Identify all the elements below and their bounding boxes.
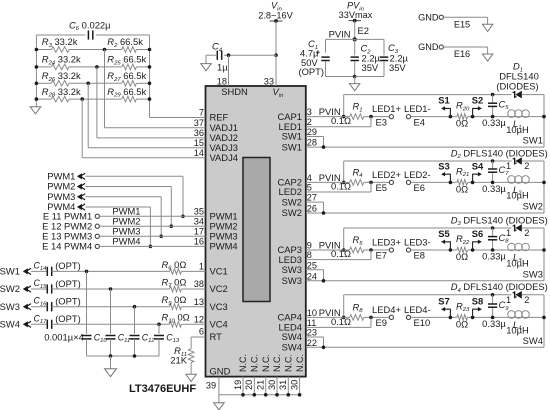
node NC 19 — [241, 393, 245, 397]
wire NC pin 19 — [242, 377, 244, 395]
wire divider row 4 — [36, 98, 51, 100]
wire SW2 to C115 — [31, 288, 47, 290]
svg-text:31: 31 — [278, 380, 288, 390]
svg-text:17: 17 — [194, 227, 204, 237]
diode D3 — [513, 226, 517, 230]
capacitor C2 — [351, 56, 359, 58]
svg-text:3: 3 — [307, 107, 312, 117]
node ch2 right — [542, 181, 546, 185]
node PVin dot — [353, 19, 357, 23]
wire cap C13 vert — [158, 324, 160, 334]
svg-text:SW1: SW1 — [282, 141, 302, 152]
node ch2 led+ — [369, 181, 373, 185]
wire Vin to pin33 — [275, 55, 277, 86]
svg-text:0.1Ω: 0.1Ω — [331, 180, 351, 191]
wire to C3 top — [355, 38, 384, 40]
PVin supply bar — [349, 20, 362, 22]
node pin18 tap dot — [227, 53, 231, 57]
node ch1 pvin — [342, 115, 346, 119]
svg-text:VC1: VC1 — [210, 266, 228, 277]
svg-text:2: 2 — [524, 228, 529, 238]
node left rail row2 — [35, 65, 39, 69]
resistor R28 33.2k — [51, 96, 69, 102]
svg-text:S1: S1 — [438, 95, 449, 106]
node ch1 s1 — [449, 115, 453, 119]
wire NC pin 20 — [253, 377, 255, 395]
wire cap bus — [87, 355, 160, 357]
wire C4 to gnd — [206, 54, 217, 56]
arrow S7 — [444, 309, 451, 317]
wire C1 left — [325, 39, 327, 52]
capacitor C16 — [46, 302, 48, 311]
node ch4 led+ — [369, 316, 373, 320]
svg-text:SW2: SW2 — [0, 283, 20, 294]
node PWM1 junction — [181, 215, 185, 219]
wire C4 to Vin — [224, 54, 276, 56]
wire R6 to IC — [181, 270, 205, 272]
svg-text:GND: GND — [418, 13, 439, 23]
wire ch3 right edge — [543, 228, 545, 281]
svg-text:0.1Ω: 0.1Ω — [331, 115, 351, 126]
resistor R10 0ohm — [170, 322, 182, 328]
svg-text:D3 DFLS140 (DIODES): D3 DFLS140 (DIODES) — [451, 214, 548, 227]
inductor L2 10uH — [508, 176, 516, 184]
svg-text:11: 11 — [307, 318, 317, 328]
svg-text:10µH: 10µH — [506, 124, 529, 135]
wire E15 — [443, 16, 487, 18]
node mid row1 — [103, 48, 107, 52]
svg-text:1: 1 — [199, 262, 204, 272]
svg-text:0.1Ω: 0.1Ω — [331, 316, 351, 327]
svg-text:R26 33.2k: R26 33.2k — [42, 70, 81, 83]
wire PWM2 — [86, 186, 172, 188]
wire cap C12 vert — [134, 307, 136, 334]
resistor R3 33.2k — [51, 47, 69, 53]
svg-text:35V: 35V — [362, 62, 379, 73]
wire divider row 2 — [36, 66, 51, 68]
wire PVIN top — [326, 38, 355, 40]
wire NC pin 31 — [287, 377, 289, 395]
node Vin-C4 junction — [274, 53, 278, 57]
svg-text:SW4: SW4 — [523, 335, 543, 346]
arrow S1 — [444, 108, 451, 116]
svg-text:25: 25 — [307, 260, 317, 270]
svg-text:28: 28 — [307, 138, 317, 148]
svg-text:E7: E7 — [376, 250, 387, 261]
svg-text:SW1: SW1 — [523, 135, 543, 146]
capacitor C14 — [46, 267, 48, 276]
arrow S8 — [473, 309, 480, 317]
svg-text:21: 21 — [256, 380, 266, 390]
ground cap bank — [105, 369, 117, 377]
svg-text:2: 2 — [524, 295, 529, 305]
wire R11 gnd — [190, 363, 192, 375]
svg-text:(OPT): (OPT) — [55, 296, 81, 307]
wire cap C11 vert — [110, 289, 112, 334]
arrow S5 — [444, 242, 451, 250]
svg-text:LED2-: LED2- — [404, 169, 431, 180]
arrow SW4 — [23, 321, 28, 327]
arrow SW1 — [23, 268, 28, 274]
svg-text:R3 33.2k: R3 33.2k — [42, 36, 78, 49]
svg-text:R2 66.5k: R2 66.5k — [107, 36, 143, 49]
svg-text:10µH: 10µH — [506, 257, 529, 268]
wire ch1 r0 out — [468, 116, 545, 118]
svg-text:LED4+: LED4+ — [372, 304, 401, 315]
node cap tap 1 — [85, 270, 89, 274]
svg-text:33Vmax: 33Vmax — [339, 10, 373, 20]
svg-text:GND: GND — [418, 42, 439, 52]
capacitor C12 plates — [130, 335, 140, 337]
resistor R6 0ohm — [170, 269, 182, 275]
svg-text:E10: E10 — [414, 317, 431, 328]
resistor R9 0ohm — [170, 304, 182, 310]
wire ch2 right edge — [543, 161, 545, 213]
wire VADJ1 — [104, 50, 106, 128]
node ch2 cap top — [491, 159, 495, 163]
resistor R7 0ohm — [170, 286, 182, 292]
wire C17 to R10 — [52, 323, 170, 325]
wire SW3 stub a — [306, 269, 324, 271]
svg-text:N.C.: N.C. — [272, 354, 282, 372]
svg-text:N.C.: N.C. — [261, 354, 271, 372]
svg-text:4: 4 — [307, 173, 312, 183]
wire ch3 A2 — [364, 249, 390, 251]
svg-text:0Ω: 0Ω — [456, 183, 468, 194]
svg-text:PWM4: PWM4 — [112, 236, 140, 247]
node right rail row2 — [148, 65, 152, 69]
node ch4 pvin — [342, 316, 346, 320]
node mid row2 — [95, 65, 99, 69]
svg-text:S8: S8 — [472, 295, 483, 306]
svg-text:E16: E16 — [454, 49, 470, 59]
wire SW4 to C117 — [31, 323, 47, 325]
node ch3 right — [542, 248, 546, 252]
resistor R29 66.5k — [122, 96, 137, 102]
svg-text:SW4: SW4 — [282, 342, 302, 353]
svg-text:5: 5 — [307, 183, 312, 193]
svg-text:S2: S2 — [472, 95, 483, 106]
svg-text:LED1+: LED1+ — [372, 103, 401, 114]
svg-text:24: 24 — [307, 271, 317, 281]
wire ch3 top — [344, 227, 512, 229]
diode D4 — [513, 293, 517, 297]
node ch1 cap top — [491, 93, 495, 97]
svg-text:R6 0Ω: R6 0Ω — [162, 259, 187, 272]
svg-text:20: 20 — [244, 380, 254, 390]
node ch3 cap bot — [491, 248, 495, 252]
wire C7 riser — [492, 161, 494, 169]
svg-text:D4 DFLS140 (DIODES): D4 DFLS140 (DIODES) — [451, 281, 548, 294]
diode D2 — [513, 159, 517, 163]
capacitor C3 — [380, 56, 388, 58]
wire ch4 mid — [411, 316, 457, 318]
svg-text:1: 1 — [506, 161, 511, 171]
wire ch2 r0 out — [468, 181, 545, 183]
svg-text:SW2: SW2 — [282, 207, 302, 218]
svg-text:26: 26 — [307, 204, 317, 214]
node ch3 s2 — [471, 248, 475, 252]
node mid row3 — [86, 82, 90, 86]
svg-text:S6: S6 — [472, 228, 483, 239]
svg-text:R27 66.5k: R27 66.5k — [107, 70, 146, 83]
wire ch4 box left — [343, 295, 345, 318]
wire ch2 A2 — [364, 181, 390, 183]
svg-text:N.C.: N.C. — [284, 354, 294, 372]
svg-text:N.C.: N.C. — [295, 354, 305, 372]
node PWM3 junction — [159, 235, 163, 239]
capacitor C13 plates — [154, 335, 164, 337]
svg-text:0.33µ: 0.33µ — [482, 251, 506, 262]
svg-text:18: 18 — [217, 76, 227, 86]
ground pin39 — [214, 403, 225, 410]
svg-text:LED2+: LED2+ — [372, 169, 401, 180]
svg-text:0.1Ω: 0.1Ω — [331, 248, 351, 259]
svg-text:SW3: SW3 — [282, 264, 302, 275]
svg-text:19: 19 — [233, 380, 243, 390]
capacitor C6 — [87, 30, 89, 39]
svg-text:R7 0Ω: R7 0Ω — [162, 276, 187, 289]
node ch4 s2 — [471, 316, 475, 320]
svg-text:9: 9 — [307, 241, 312, 251]
wire divider row 3 — [36, 82, 51, 84]
svg-text:2.8~16V: 2.8~16V — [258, 11, 293, 21]
arrow PWM4 — [77, 204, 82, 210]
resistor R2 66.5k — [122, 47, 137, 53]
svg-text:SW3: SW3 — [523, 268, 543, 279]
svg-text:SW2: SW2 — [523, 201, 543, 212]
wire PVin mid — [354, 39, 356, 55]
wire ch1 right edge — [543, 95, 545, 148]
svg-text:D2 DFLS140 (DIODES): D2 DFLS140 (DIODES) — [451, 147, 548, 160]
wire divider row 1 — [36, 49, 51, 51]
capacitor C10 plates — [82, 335, 92, 337]
node Vin dot — [274, 19, 278, 23]
svg-text:SW1: SW1 — [0, 266, 20, 277]
wire ch2 box left — [343, 161, 345, 182]
svg-text:S3: S3 — [438, 160, 449, 171]
svg-text:VC4: VC4 — [210, 319, 228, 330]
svg-text:33: 33 — [264, 76, 274, 86]
node ch1 right — [542, 115, 546, 119]
node C2 bottom dot — [353, 75, 357, 79]
node right rail row1 — [148, 48, 152, 52]
svg-text:VC2: VC2 — [210, 283, 228, 294]
arrow PWM3 — [77, 194, 82, 200]
capacitor C4 — [216, 51, 218, 60]
terminal E14 circle — [95, 244, 99, 248]
node ch2 s1 — [449, 181, 453, 185]
svg-text:2: 2 — [524, 161, 529, 171]
node ch4 cap bot — [491, 316, 495, 320]
wire SW2 stub a — [306, 201, 324, 203]
svg-text:34: 34 — [194, 216, 204, 226]
wire C1 bottom — [325, 62, 327, 77]
wire C13 to bus — [158, 339, 160, 356]
arrow PWM1 — [77, 173, 82, 179]
node ch4 s1 — [449, 316, 453, 320]
terminal circle E16 — [439, 45, 443, 49]
terminal E9 circle — [389, 315, 393, 319]
wire C16 to R9 — [52, 306, 170, 308]
wire ch2 top — [344, 160, 512, 162]
svg-text:35V: 35V — [389, 62, 406, 73]
wire ch4 A1 — [344, 316, 350, 318]
wire SW4 line — [306, 346, 544, 348]
arrow S4 — [473, 174, 480, 182]
svg-text:C6 0.022µ: C6 0.022µ — [69, 19, 111, 32]
node SW1 join — [322, 145, 326, 149]
wire ch4 right edge — [543, 295, 545, 348]
node ch2 s2 — [471, 181, 475, 185]
svg-text:S5: S5 — [438, 228, 449, 239]
terminal E6 circle — [406, 180, 410, 184]
svg-text:LT3476EUHF: LT3476EUHF — [129, 383, 196, 395]
ground divider — [30, 107, 41, 114]
terminal E8 circle — [406, 248, 410, 252]
svg-text:VADJ4: VADJ4 — [210, 152, 238, 163]
wire LED4 stub — [306, 326, 371, 328]
wire LED1 stub — [306, 126, 371, 128]
svg-text:R25 66.5k: R25 66.5k — [107, 54, 146, 67]
svg-text:7: 7 — [199, 108, 204, 118]
wire C8 riser — [492, 228, 494, 237]
node ch4 right — [542, 316, 546, 320]
node right rail row4 — [148, 97, 152, 101]
svg-text:LED3-: LED3- — [404, 237, 431, 248]
wire C5 riser — [492, 95, 494, 104]
wire REF to IC — [150, 117, 206, 119]
svg-text:0.33µ: 0.33µ — [482, 183, 506, 194]
ground E15 — [482, 24, 493, 31]
svg-text:1: 1 — [506, 228, 511, 238]
wire ch3 mid — [411, 249, 457, 251]
node SW3 join — [322, 279, 326, 283]
wire SW1 stub a — [306, 136, 324, 138]
terminal E13 circle — [95, 234, 99, 238]
arrow S3 — [444, 174, 451, 182]
svg-text:(DIODES): (DIODES) — [496, 81, 538, 92]
ground E16 — [482, 54, 493, 61]
svg-text:37: 37 — [194, 118, 204, 128]
ground PVin — [349, 84, 360, 91]
wire RT — [191, 336, 205, 338]
wire C14 to R6 — [52, 270, 170, 272]
node ch1 s2 — [471, 115, 475, 119]
capacitor C5 — [488, 102, 497, 104]
node ch2 cap bot — [491, 181, 495, 185]
wire R9 to IC — [181, 306, 205, 308]
IC exposed pad — [243, 158, 270, 302]
node SW2 join — [322, 211, 326, 215]
ground R11 — [186, 374, 197, 381]
wire SW1 line — [306, 146, 544, 148]
capacitor C11 plates — [106, 335, 116, 337]
capacitor C17 — [46, 320, 48, 329]
svg-text:23: 23 — [307, 328, 317, 338]
svg-text:(OPT): (OPT) — [55, 313, 81, 324]
resistor R5 0.1ohm — [350, 247, 364, 253]
svg-text:(OPT): (OPT) — [55, 260, 81, 271]
svg-text:S4: S4 — [472, 160, 484, 171]
node left rail row3 — [35, 82, 39, 86]
node NC 30 — [275, 393, 279, 397]
svg-text:E3: E3 — [376, 116, 387, 127]
wire divider top — [36, 34, 85, 36]
svg-text:E2: E2 — [358, 25, 369, 36]
wire C10 to bus — [86, 339, 88, 356]
svg-text:LED1-: LED1- — [404, 103, 431, 114]
svg-text:29: 29 — [307, 127, 317, 137]
svg-text:SW4: SW4 — [0, 319, 20, 330]
node ch4 cap top — [491, 293, 495, 297]
svg-text:2: 2 — [307, 117, 312, 127]
svg-text:R9 0Ω: R9 0Ω — [162, 294, 187, 307]
wire CAP4 stub — [306, 316, 344, 318]
svg-text:0.33µ: 0.33µ — [482, 117, 506, 128]
svg-text:21K: 21K — [170, 355, 187, 366]
diode D1 — [513, 92, 517, 96]
node ch3 led+ — [369, 248, 373, 252]
wire SW4 stub a — [306, 336, 324, 338]
node left rail row1 — [35, 48, 39, 52]
svg-text:38: 38 — [194, 279, 204, 289]
wire C11 to bus — [110, 339, 112, 356]
wire ch1 mid — [411, 116, 457, 118]
wire divider right rail — [149, 35, 151, 118]
wire PWM4 — [86, 206, 151, 208]
wire C12 to bus — [134, 339, 136, 356]
svg-text:0Ω: 0Ω — [456, 318, 468, 329]
Vin supply bar — [270, 20, 283, 22]
svg-text:1: 1 — [506, 295, 511, 305]
svg-text:6: 6 — [199, 327, 204, 337]
node ch3 cap top — [491, 226, 495, 230]
svg-text:S7: S7 — [438, 295, 449, 306]
wire CAP2 stub — [306, 181, 344, 183]
arrow S2 — [473, 108, 480, 116]
arrow PWM2 — [77, 183, 82, 189]
svg-text:(OPT): (OPT) — [55, 278, 81, 289]
wire ch3 A1 — [344, 249, 350, 251]
IC U1 LT3476EUHF body — [206, 86, 306, 377]
wire VADJ2 — [96, 67, 98, 138]
node cap tap 4 — [157, 323, 161, 327]
svg-text:35: 35 — [194, 207, 204, 217]
svg-text:E6: E6 — [414, 182, 425, 193]
svg-text:R10 0Ω: R10 0Ω — [162, 312, 190, 325]
node PWM2 junction — [170, 224, 174, 228]
svg-text:N.C.: N.C. — [250, 354, 260, 372]
wire SW1 to C114 — [31, 270, 47, 272]
resistor R22 0ohm — [457, 247, 468, 253]
svg-text:13: 13 — [194, 297, 204, 307]
resistor R20 0ohm — [457, 114, 468, 120]
svg-text:E 14 PWM4: E 14 PWM4 — [42, 241, 92, 252]
resistor R26 33.2k — [51, 81, 69, 87]
node left rail row4 — [35, 97, 39, 101]
wire NC pin 21 — [265, 377, 267, 395]
terminal E3 circle — [389, 115, 393, 119]
svg-text:E4: E4 — [414, 116, 425, 127]
resistor R4 0.1ohm — [350, 180, 364, 186]
wire cap C10 vert — [86, 271, 88, 333]
node ch3 s1 — [449, 248, 453, 252]
wire E14 to IC — [99, 245, 205, 247]
node SW4 join — [322, 346, 326, 350]
node cap tap 3 — [133, 305, 137, 309]
wire SW2 line — [306, 212, 544, 214]
